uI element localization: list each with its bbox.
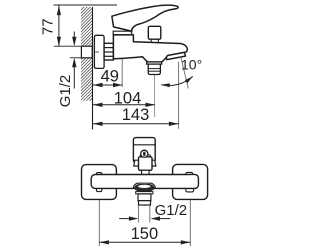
dimension 49 — [93, 84, 123, 86]
cartridge collar side view — [113, 31, 132, 35]
right connection bumps — [186, 172, 193, 176]
svg-text:G1/2: G1/2 — [57, 75, 74, 108]
logo circle — [141, 150, 148, 157]
cartridge collar front view — [134, 160, 156, 166]
G1/2 wall pipe connection — [81, 46, 92, 58]
handle front view — [133, 138, 155, 163]
extension line pipe bottom — [70, 57, 81, 59]
connection nut side view — [104, 43, 113, 60]
dimension 104 — [93, 104, 155, 106]
wall face line — [92, 7, 94, 129]
G1/2 front extension lines — [137, 206, 139, 223]
spout outlet axis extension line — [178, 62, 180, 129]
10 degree arc — [161, 76, 193, 85]
svg-text:G1/2: G1/2 — [155, 202, 188, 219]
shower outlet axis extension line — [154, 50, 156, 117]
escutcheon side view — [94, 35, 104, 68]
left wall escutcheon front view — [82, 165, 117, 200]
left connection bumps — [97, 173, 102, 177]
handle lever side view — [112, 5, 178, 31]
spout mouth front view — [133, 183, 155, 188]
extension line pipe top — [54, 45, 81, 47]
right end cap — [190, 175, 199, 189]
150 left extension line — [98, 192, 100, 246]
faucet body side view — [113, 35, 187, 62]
svg-text:10°: 10° — [181, 56, 202, 72]
cartridge axis extension line — [121, 37, 123, 88]
wall — [0, 0, 193, 110]
shower outlet side view — [147, 62, 162, 64]
diverter knob front view — [140, 155, 150, 157]
faucet body bar front view — [91, 175, 198, 189]
svg-text:49: 49 — [101, 67, 119, 85]
right wall escutcheon front view — [173, 164, 208, 199]
dimension 77 line — [58, 6, 60, 47]
dimension G1/2 side arrows — [73, 32, 75, 39]
G1/2 front dimension arrows — [119, 218, 130, 220]
10 degree slant line — [181, 57, 189, 89]
dimension 143 — [93, 123, 178, 125]
svg-text:150: 150 — [131, 225, 159, 243]
svg-text:143: 143 — [122, 106, 150, 124]
svg-text:104: 104 — [114, 90, 142, 108]
diverter knob side view — [148, 26, 161, 39]
aerator front view — [136, 192, 153, 194]
spout aerator band side view — [166, 52, 185, 59]
svg-text:77: 77 — [39, 18, 56, 35]
extension line top (handle top level) — [54, 4, 118, 6]
150 right extension line — [189, 188, 191, 246]
dimension 150 — [99, 241, 190, 243]
front view center line — [144, 152, 146, 206]
